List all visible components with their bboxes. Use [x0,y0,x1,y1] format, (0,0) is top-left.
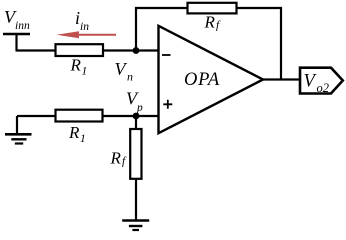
flag Vo2 [300,68,343,94]
svg-text:1: 1 [80,133,86,145]
label Vn [115,59,134,84]
label Vp [126,89,143,115]
svg-text:V: V [115,59,128,79]
svg-text:in: in [80,21,89,33]
resistor R1 bottom [56,110,103,122]
svg-text:R: R [110,149,122,168]
label Rf vertical [110,149,128,168]
svg-text:f: f [122,156,127,168]
svg-text:1: 1 [82,66,88,78]
svg-text:OPA: OPA [184,70,220,90]
svg-text:f: f [216,20,221,32]
node Vp [133,113,140,120]
label R1 bottom [68,123,86,145]
wire Rf to ground bottom [135,179,137,221]
ground left [5,116,32,144]
minus input sign [162,54,171,56]
node Vn [133,47,140,54]
svg-text:R: R [68,123,80,142]
resistor Rf top [188,3,237,14]
svg-text:R: R [70,56,82,75]
label R1 top [70,56,88,78]
op-amp U1 [159,26,264,133]
svg-text:o2: o2 [317,81,330,95]
wire feedback up from Vn [136,8,187,51]
ground bottom [122,221,149,231]
resistor Rf vertical [130,129,141,179]
svg-text:p: p [136,102,143,114]
wire R1 to node Vn [103,49,159,51]
current arrow iin [57,31,117,38]
svg-text:inn: inn [15,20,30,32]
resistor R1 top [56,44,104,56]
wire R1 to node Vp and op-amp [103,115,159,117]
label Vo2 [304,72,330,96]
wire Vp down to Rf [135,116,137,129]
wire output [263,78,300,80]
terminal Vinn [3,34,30,51]
wire Rf to right corner and down to output [237,8,282,80]
label iin [75,8,89,33]
label Vinn [4,7,30,32]
wire ground to R1 bottom [17,115,55,117]
wire Vinn to R1 [16,49,56,51]
plus input sign [163,100,172,109]
label Rf top [204,13,222,32]
svg-text:n: n [127,70,133,84]
svg-text:R: R [204,13,216,32]
